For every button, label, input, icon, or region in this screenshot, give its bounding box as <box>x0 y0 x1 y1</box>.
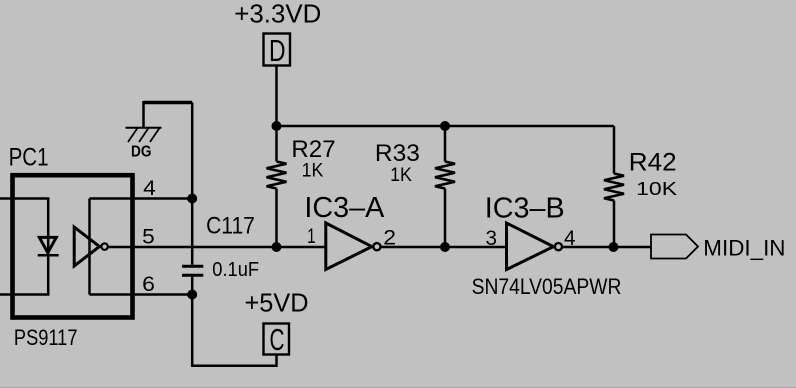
label PS9117 <box>14 325 78 350</box>
svg-text:C: C <box>270 323 285 357</box>
buffer (photo-detector) triangle inside PC1 <box>74 227 99 266</box>
svg-text:6: 6 <box>142 272 155 296</box>
pin number 5 <box>142 224 155 248</box>
label 10K (R42) <box>636 178 678 199</box>
pin number 4 <box>143 176 156 200</box>
label SN74LV05APWR <box>472 274 622 299</box>
junction top rail at R27 <box>272 121 282 131</box>
wire: IC3-B output to MIDI_IN port <box>562 246 651 249</box>
wire: top rail +3.3VD distribution <box>277 125 615 128</box>
wire: pin 6 rail to junction <box>90 293 193 296</box>
wire: main signal line pin5 to IC3-A input <box>109 246 326 249</box>
wire: buffer bracket pin4-to-pin6 inside PC1 <box>88 199 91 295</box>
buffer output bubble <box>101 243 107 249</box>
svg-text:R42: R42 <box>629 149 677 176</box>
power symbol C box <box>264 323 290 357</box>
pin number 4 (IC3-B out) <box>564 226 576 250</box>
label R42 <box>629 149 677 176</box>
bottom edge shade <box>0 386 796 388</box>
ground DG <box>126 101 193 161</box>
label 1K (R27) <box>302 161 324 182</box>
label IC3-B <box>485 192 565 224</box>
power +5VD label <box>245 290 309 318</box>
resistor R33 <box>435 126 455 247</box>
label IC3-A <box>304 192 385 224</box>
label PC1 <box>9 144 49 172</box>
junction top rail at R33 <box>440 121 450 131</box>
svg-text:D: D <box>269 34 286 68</box>
power +3.3VD label <box>234 0 321 28</box>
power symbol D box <box>264 34 291 68</box>
junction main line at R27 <box>272 242 282 252</box>
wire: vertical through pin5 crossing to capacitor <box>191 199 194 265</box>
label 0.1uF <box>212 259 259 281</box>
inverter IC3-B <box>507 223 563 270</box>
junction at pin 4 <box>187 194 197 204</box>
pin number 1 (IC3-A in) <box>307 224 316 248</box>
svg-text:1K: 1K <box>390 165 412 186</box>
wire: PC1 left anode/cathode rails and LED branch <box>0 199 48 295</box>
wire: ground rail down to pin4 junction <box>191 103 194 199</box>
wire: D symbol down to top rail <box>275 66 278 127</box>
svg-text:MIDI_IN: MIDI_IN <box>703 236 785 261</box>
svg-text:SN74LV05APWR: SN74LV05APWR <box>472 274 622 299</box>
pin number 3 (IC3-B in) <box>486 226 498 250</box>
junction main line at R42 <box>609 242 619 252</box>
label 1K (R33) <box>390 165 412 186</box>
net label MIDI_IN <box>703 236 785 261</box>
junction main line at R33 <box>440 242 450 252</box>
svg-text:5: 5 <box>142 224 155 248</box>
svg-text:DG: DG <box>131 144 151 161</box>
junction at pin 6 <box>187 290 197 300</box>
svg-text:10K: 10K <box>636 178 678 199</box>
label R27 <box>291 136 335 163</box>
pin number 6 <box>142 272 155 296</box>
diode LED inside PC1 <box>38 237 59 255</box>
svg-text:R33: R33 <box>375 140 420 167</box>
svg-text:4: 4 <box>143 176 156 200</box>
svg-text:IC3–A: IC3–A <box>304 192 385 224</box>
capacitor C117 <box>182 266 203 275</box>
svg-text:PS9117: PS9117 <box>14 325 78 350</box>
svg-text:1: 1 <box>307 224 316 248</box>
optocoupler PC1 box <box>13 175 133 317</box>
wire: IC3-A output to IC3-B input <box>381 246 507 249</box>
resistor R42 <box>604 126 624 247</box>
inverter IC3-A <box>326 223 381 270</box>
svg-text:IC3–B: IC3–B <box>485 192 565 224</box>
svg-text:C117: C117 <box>206 213 255 240</box>
svg-text:+5VD: +5VD <box>245 290 309 318</box>
wire: pin 4 rail to junction <box>90 197 193 200</box>
label R33 <box>375 140 420 167</box>
svg-text:+3.3VD: +3.3VD <box>234 0 321 28</box>
svg-text:R27: R27 <box>291 136 335 163</box>
svg-text:1K: 1K <box>302 161 324 182</box>
label C117 <box>206 213 255 240</box>
svg-text:PC1: PC1 <box>9 144 49 172</box>
svg-text:3: 3 <box>486 226 498 250</box>
port connector MIDI_IN <box>651 235 698 259</box>
resistor R27 <box>267 126 287 247</box>
wire: capacitor to pin6 junction <box>191 277 194 295</box>
wire: pin6 junction down and right to +5VD C symbol <box>192 295 276 366</box>
pin number 2 (IC3-A out) <box>383 226 396 250</box>
svg-text:0.1uF: 0.1uF <box>212 259 259 281</box>
